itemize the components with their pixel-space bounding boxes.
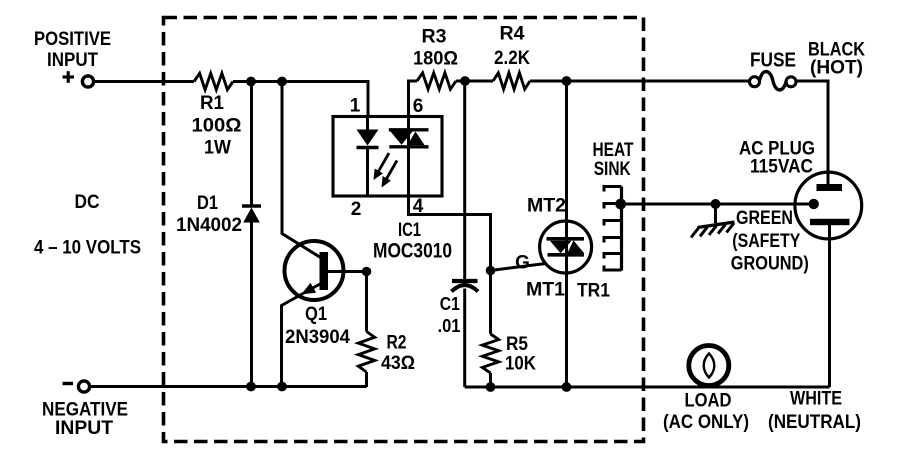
label Q1 2N3904 [285,304,350,348]
svg-text:HEAT: HEAT [593,140,634,161]
resistor R3 [417,73,456,89]
svg-text:2N3904: 2N3904 [285,327,350,348]
svg-text:(SAFETY: (SAFETY [732,231,800,252]
node dot MT1 bottom [562,382,572,392]
label WHITE (NEUTRAL) [768,389,861,434]
svg-text:1N4002: 1N4002 [176,215,242,236]
diode D1 [242,82,261,388]
node dot ground stub [711,199,721,209]
svg-text:4 – 10 VOLTS: 4 – 10 VOLTS [34,238,141,259]
resistor R2 [358,272,374,388]
wire: MT2 [565,81,568,222]
svg-text:WHITE: WHITE [790,389,842,410]
label LOAD (AC ONLY) [663,391,749,434]
svg-text:Q1: Q1 [305,304,327,325]
node dot Q1 emitter bottom [277,382,287,392]
svg-text:GROUND): GROUND) [731,254,809,275]
svg-text:(AC ONLY): (AC ONLY) [663,412,749,433]
opto-isolator IC1 box [333,117,442,197]
svg-text:(NEUTRAL): (NEUTRAL) [768,412,861,433]
svg-text:R5: R5 [506,334,528,355]
wire: R3 to R4 [456,80,493,83]
wire: plug neutral down [828,225,831,387]
label R2 43ohm [381,333,415,375]
svg-text:LOAD: LOAD [685,391,732,412]
label R1 100ohm 1W [192,93,242,159]
wire: AC-side bottom rail [465,386,830,389]
node dot MT2 top [562,76,572,86]
svg-text:2.2K: 2.2K [494,48,530,69]
IC1 photo-triac [389,117,429,197]
svg-text:10K: 10K [505,354,536,375]
svg-text:R2: R2 [387,333,407,354]
label GREEN (SAFETY GROUND) [731,208,809,275]
svg-text:IC1: IC1 [398,220,421,241]
wire: Q1 base lead [328,270,367,273]
label POSITIVE INPUT [34,29,111,71]
svg-text:180Ω: 180Ω [413,49,458,70]
wire: gate lead to TR1 [491,264,546,271]
negative input terminal [78,381,89,392]
ground symbol [691,204,735,238]
svg-text:.01: .01 [438,316,461,336]
svg-text:2: 2 [351,199,362,220]
fuse [750,72,797,90]
triac TR1 [540,221,592,273]
wire: safety ground run [621,203,810,206]
svg-text:R1: R1 [200,93,224,114]
wire: pin4 to gate [409,196,491,271]
svg-text:G: G [515,253,530,274]
node dot gate junction [486,266,496,276]
node dot R5 bottom [486,382,496,392]
svg-text:R4: R4 [500,24,525,45]
minus sign [63,382,74,385]
plus sign [63,71,75,83]
svg-text:1W: 1W [204,138,231,159]
wire: negative rail [90,385,367,388]
svg-text:POSITIVE: POSITIVE [34,29,111,50]
svg-text:1: 1 [350,96,361,117]
svg-text:43Ω: 43Ω [381,353,415,374]
label IC1 MOC3010 [373,220,452,263]
capacitor C1 [452,81,479,387]
label D1 1N4002 [176,193,242,236]
IC1 light arrows [374,153,398,188]
label R4 2.2K [494,24,530,70]
label R5 10K [505,334,536,375]
wire: + terminal to R1 [94,80,194,83]
svg-text:100Ω: 100Ω [192,116,242,137]
node dot R3/R4/C1 junction [460,76,470,86]
wire: fuse to plug hot [797,81,828,185]
svg-text:115VAC: 115VAC [750,157,813,178]
resistor R1 [194,73,233,89]
resistor R5 [482,271,498,388]
svg-text:R3: R3 [422,27,447,48]
node dot heat sink [615,199,626,210]
label R3 180ohm [413,27,458,70]
resistor R4 [493,73,530,89]
svg-text:GREEN: GREEN [736,208,793,229]
label DC 4-10 VOLTS [34,192,141,259]
svg-text:MOC3010: MOC3010 [373,240,452,263]
transistor Q1 [282,241,344,387]
node dot D1 bottom [246,382,256,392]
svg-text:C1: C1 [440,294,460,314]
svg-text:FUSE: FUSE [750,50,796,72]
IC1 LED [357,117,379,197]
heat sink [604,187,622,271]
wire: pin6 to R3 [409,81,418,117]
label C1 .01 [438,294,461,336]
svg-text:SINK: SINK [594,159,631,180]
load lamp [689,346,729,386]
wire: R1 to pin1 corner, top rail [233,82,368,117]
label AC PLUG 115VAC [739,139,815,178]
node dot Q1 collector top [277,77,287,87]
svg-text:INPUT: INPUT [47,50,98,71]
svg-text:6: 6 [413,96,424,117]
svg-text:D1: D1 [197,193,218,214]
positive input terminal [82,76,93,87]
label NEGATIVE INPUT [42,400,128,440]
node dot D1 top [246,77,256,87]
AC plug [795,172,862,239]
svg-text:DC: DC [75,192,100,213]
svg-text:MT1: MT1 [526,280,565,301]
svg-text:TR1: TR1 [577,281,610,302]
wire: MT1 [565,273,568,387]
label HEAT SINK [593,140,634,180]
wire: Q1 collector [282,82,321,258]
svg-text:INPUT: INPUT [55,418,113,439]
svg-text:MT2: MT2 [527,196,566,217]
wire: R4 to fuse [530,80,749,83]
label BLACK (HOT) [808,40,865,79]
node dot base / pin2 junction [362,267,372,277]
svg-text:(HOT): (HOT) [810,58,863,79]
dashed isolation box [164,18,644,442]
